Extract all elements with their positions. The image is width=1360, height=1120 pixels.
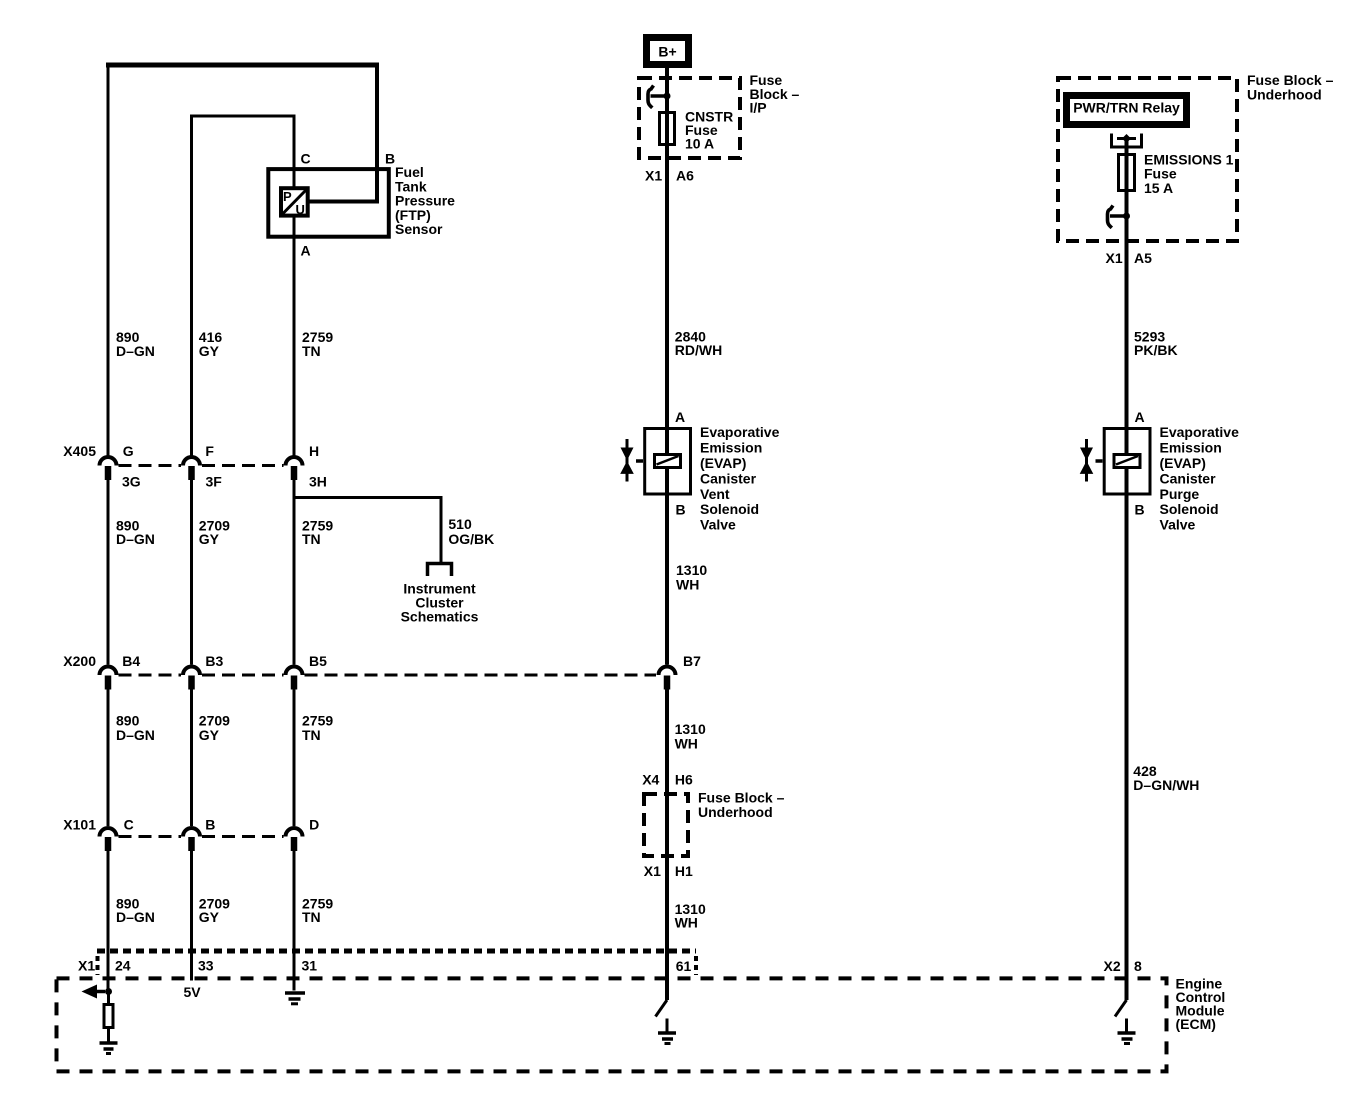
svg-text:Evaporative: Evaporative [700, 424, 780, 440]
svg-text:3G: 3G [122, 473, 141, 489]
svg-text:PK/BK: PK/BK [1134, 342, 1178, 358]
wire label 416 GY [199, 329, 223, 359]
fuse block underhood pass-through labels X1 H1 [644, 863, 693, 879]
svg-text:D–GN/WH: D–GN/WH [1133, 777, 1199, 793]
svg-text:Schematics: Schematics [401, 609, 479, 625]
connector X101 pin D [286, 828, 303, 851]
wire label 2709 GY mid [199, 518, 230, 548]
svg-text:H: H [309, 443, 319, 459]
svg-text:X1: X1 [645, 168, 662, 184]
wire 890 D-GN: FTP sensor pin B loop to X405 pin G [106, 63, 379, 456]
wire: B+ to CNSTR fuse [665, 65, 669, 112]
svg-text:G: G [123, 443, 134, 459]
svg-text:(ECM): (ECM) [1176, 1016, 1216, 1032]
fuse block underhood pass-through label [698, 790, 785, 821]
svg-text:Fuse Block –: Fuse Block – [698, 790, 785, 806]
svg-text:Emission: Emission [700, 440, 762, 456]
svg-text:Vent: Vent [700, 486, 730, 502]
FTP sensor box [268, 169, 389, 237]
connector X200 pin B7 [659, 667, 676, 690]
ECM dashed outline [57, 978, 1167, 1071]
ECM low-side driver switch on pin 61 [656, 1000, 668, 1017]
svg-text:TN: TN [302, 909, 321, 925]
svg-text:X200: X200 [63, 653, 96, 669]
ECM internal signal arrow on pin 24 [82, 985, 113, 999]
EVAP purge solenoid coil [1114, 455, 1140, 468]
svg-text:P: P [283, 189, 292, 204]
ECM label [1176, 976, 1226, 1032]
FTP sensor label: Fuel Tank Pressure (FTP) Sensor [395, 164, 455, 237]
svg-text:Purge: Purge [1160, 486, 1200, 502]
svg-text:1310: 1310 [675, 721, 706, 737]
svg-text:C: C [124, 817, 134, 833]
ECM internal ground on pin 61 [658, 1019, 676, 1044]
svg-text:X1: X1 [78, 957, 95, 973]
connector X200 pin B5 [286, 667, 303, 690]
wire 428 D-GN/WH: EVAP purge solenoid B to ECM [1125, 468, 1129, 1001]
svg-text:X101: X101 [63, 817, 96, 833]
svg-text:33: 33 [198, 957, 214, 973]
connector X101 pin B [183, 828, 200, 851]
svg-text:GY: GY [199, 909, 220, 925]
wire 890 D-GN: X101 C to ECM 24 [107, 851, 110, 992]
off-page connector to instrument cluster [428, 564, 452, 577]
EMISSIONS 1 fuse label [1144, 152, 1234, 197]
svg-text:3H: 3H [309, 473, 327, 489]
svg-text:B5: B5 [309, 653, 327, 669]
fuse block underhood pass-through labels X4 H6 [642, 771, 693, 787]
fuse block I/P pin labels X1 A6 [645, 168, 694, 184]
svg-text:Solenoid: Solenoid [700, 501, 759, 517]
EVAP vent solenoid coil [655, 455, 681, 468]
svg-text:TN: TN [302, 343, 321, 359]
wire label 1310 WH upper [676, 562, 707, 592]
svg-text:A: A [1135, 409, 1145, 425]
svg-text:B3: B3 [205, 653, 223, 669]
svg-text:510: 510 [448, 516, 472, 532]
bus tap hook at CNSTR fuse feed [648, 86, 671, 108]
wire label 1310 WH mid [675, 721, 706, 752]
wire label 2759 TN mid [302, 518, 333, 548]
svg-text:61: 61 [676, 958, 692, 974]
svg-text:3F: 3F [206, 473, 223, 489]
svg-text:(EVAP): (EVAP) [700, 455, 746, 471]
wire 416 GY: FTP sensor pin C loop to X405 pin F [190, 115, 296, 456]
Fuse Block Underhood dashed outline [1058, 78, 1237, 241]
fuse CNSTR 10 A [660, 113, 675, 145]
svg-text:Canister: Canister [700, 470, 757, 486]
wire 2759 TN: X200 B5 to X101 D [293, 690, 296, 827]
wire 1310 WH: EVAP vent solenoid B to X200 B7 [665, 468, 669, 665]
wire label 890 D-GN bottom [116, 896, 155, 925]
FTP sensor pressure transducer P/U symbol [281, 188, 308, 217]
svg-text:A: A [301, 243, 311, 259]
svg-text:B7: B7 [683, 653, 701, 669]
svg-text:H6: H6 [675, 771, 693, 787]
EVAP vent solenoid valve box [645, 429, 691, 495]
svg-text:OG/BK: OG/BK [448, 531, 494, 547]
ECM internal ground below resistor [100, 1028, 118, 1054]
EVAP purge solenoid valve box [1104, 429, 1150, 495]
EVAP purge valve symbol [1080, 439, 1103, 482]
svg-text:Sensor: Sensor [395, 221, 443, 237]
svg-text:890: 890 [116, 713, 140, 729]
svg-text:Solenoid: Solenoid [1160, 501, 1219, 517]
wire 890 D-GN: X200 B4 to X101 C [107, 690, 110, 827]
EVAP vent solenoid description [700, 424, 780, 532]
svg-text:D–GN: D–GN [116, 727, 155, 743]
connector X101 dashed line [119, 835, 284, 838]
svg-text:GY: GY [199, 727, 220, 743]
ECM internal ground on pin 8 [1118, 1019, 1136, 1044]
wire label 2709 GY bottom [199, 896, 230, 925]
wire label 890 D-GN lower mid [116, 713, 155, 744]
fuse block underhood pin labels X1 A5 [1106, 250, 1153, 266]
svg-text:A: A [675, 409, 685, 425]
Fuse Block I/P dashed outline [639, 78, 740, 158]
wire 2840 RD/WH: fuse to EVAP vent solenoid pin A [665, 145, 669, 456]
svg-text:X2: X2 [1104, 958, 1121, 974]
svg-text:Underhood: Underhood [1247, 86, 1322, 102]
X405 lower pin letters 3G 3F 3H [122, 473, 327, 489]
fuse EMISSIONS 1 15 A [1119, 155, 1135, 191]
ECM connector X1 dotted pin line [97, 951, 696, 975]
svg-text:GY: GY [199, 343, 220, 359]
svg-text:X1: X1 [1106, 250, 1123, 266]
Fuse Block I/P label [750, 72, 800, 116]
wire 5293 PK/BK: fuse to EVAP purge solenoid pin A [1125, 191, 1129, 456]
Fuse Block Underhood label [1247, 72, 1334, 103]
wire 2709 GY: X405 F to X200 B3 [190, 480, 193, 665]
wire 2709 GY: X200 B3 to X101 B [190, 690, 193, 827]
svg-text:10 A: 10 A [685, 135, 714, 151]
svg-text:8: 8 [1134, 958, 1142, 974]
svg-text:D–GN: D–GN [116, 343, 155, 359]
relay output bracket [1112, 134, 1142, 148]
connector X200 dashed line [119, 674, 657, 677]
svg-text:X1: X1 [644, 863, 661, 879]
svg-text:PWR/TRN Relay: PWR/TRN Relay [1073, 100, 1180, 116]
connector X405 pin F [183, 457, 200, 480]
svg-text:TN: TN [302, 727, 321, 743]
wire label 2759 TN upper [302, 329, 333, 359]
svg-text:GY: GY [199, 531, 220, 547]
ECM low-side driver switch on pin 8 [1115, 1000, 1127, 1017]
svg-text:D–GN: D–GN [116, 909, 155, 925]
svg-text:WH: WH [675, 736, 698, 752]
svg-text:I/P: I/P [750, 100, 767, 116]
svg-text:WH: WH [675, 915, 698, 931]
svg-text:A6: A6 [676, 168, 694, 184]
CNSTR fuse label [685, 108, 733, 151]
wire 510 OG/BK branch to instrument cluster [294, 498, 441, 563]
wire label 428 D-GN/WH [1133, 763, 1199, 793]
svg-text:RD/WH: RD/WH [675, 342, 722, 358]
wire 2759 TN: X101 D to ECM 31 [293, 851, 296, 991]
wire label 2709 GY lower mid [199, 713, 230, 744]
PWR/TRN Relay box [1067, 96, 1187, 125]
svg-text:B: B [385, 151, 395, 167]
EVAP purge solenoid description [1160, 424, 1240, 532]
svg-text:B4: B4 [122, 653, 140, 669]
wire label 2840 RD/WH [675, 328, 722, 358]
bus tap hook below EMISSIONS 1 fuse [1108, 206, 1131, 228]
connector X101 pin C [100, 828, 117, 851]
svg-text:15 A: 15 A [1144, 180, 1173, 196]
fuse block underhood pass-through dashed box [644, 794, 688, 856]
svg-text:X405: X405 [63, 443, 96, 459]
connector X405 pin H [286, 457, 303, 480]
ECM internal pull-up resistor [104, 992, 113, 1028]
wire: relay to EMISSIONS 1 fuse [1125, 139, 1129, 155]
svg-text:B: B [1135, 501, 1145, 517]
X405 pin letters G F H [123, 443, 319, 459]
svg-text:D–GN: D–GN [116, 531, 155, 547]
connector X405 dashed line [119, 464, 284, 467]
instrument cluster label [401, 580, 479, 624]
connector X405 pin G [100, 457, 117, 480]
svg-text:D: D [309, 817, 319, 833]
svg-text:24: 24 [115, 957, 131, 973]
wire 2759 TN: X405 H to X200 B5 with branch to instrument cluster [293, 480, 296, 665]
wire label 5293 PK/BK [1134, 328, 1178, 358]
svg-text:5V: 5V [184, 984, 202, 1000]
svg-text:2709: 2709 [199, 713, 230, 729]
svg-text:Canister: Canister [1160, 470, 1217, 486]
svg-text:C: C [301, 151, 311, 167]
svg-text:Valve: Valve [700, 517, 736, 533]
svg-text:Underhood: Underhood [698, 804, 773, 820]
wire 1310 WH: X200 B7 to underhood fuse block H6 [665, 690, 669, 1001]
svg-text:31: 31 [302, 957, 318, 973]
wire label 2759 TN bottom [302, 896, 333, 925]
svg-text:Valve: Valve [1160, 517, 1196, 533]
wire 2709 GY: X101 B to ECM 33 [190, 851, 193, 981]
svg-text:B: B [676, 501, 686, 517]
connector X200 pin B4 [100, 667, 117, 690]
connector X200 pin B3 [183, 667, 200, 690]
X200 pin letters B4 B3 B5 B7 [122, 653, 701, 669]
wire label 2759 TN lower mid [302, 713, 333, 744]
svg-text:B: B [205, 817, 215, 833]
ECM internal ground on pin 31 [285, 851, 305, 1004]
wire label 510 OG/BK [448, 516, 494, 547]
svg-text:TN: TN [302, 531, 321, 547]
svg-text:Emission: Emission [1160, 440, 1222, 456]
wire label 890 D-GN mid [116, 518, 155, 548]
svg-text:X4: X4 [642, 771, 659, 787]
wire 890 D-GN: X405 G to X200 B4 [107, 480, 110, 665]
EVAP vent valve symbol [620, 439, 643, 482]
svg-text:F: F [205, 443, 214, 459]
wire label 890 D-GN upper [116, 329, 155, 359]
svg-text:2759: 2759 [302, 713, 333, 729]
svg-text:H1: H1 [675, 863, 693, 879]
X101 pin letters C B D [124, 817, 320, 833]
B+ power feed symbol [647, 38, 689, 65]
svg-text:U: U [296, 202, 305, 217]
svg-text:(EVAP): (EVAP) [1160, 455, 1206, 471]
svg-text:A5: A5 [1134, 250, 1152, 266]
wire 2759 TN: FTP sensor pin A to X405 pin H [293, 218, 296, 456]
svg-text:WH: WH [676, 576, 699, 592]
svg-text:B+: B+ [658, 44, 676, 60]
wire label 1310 WH bottom [675, 901, 706, 930]
svg-text:Evaporative: Evaporative [1160, 424, 1240, 440]
